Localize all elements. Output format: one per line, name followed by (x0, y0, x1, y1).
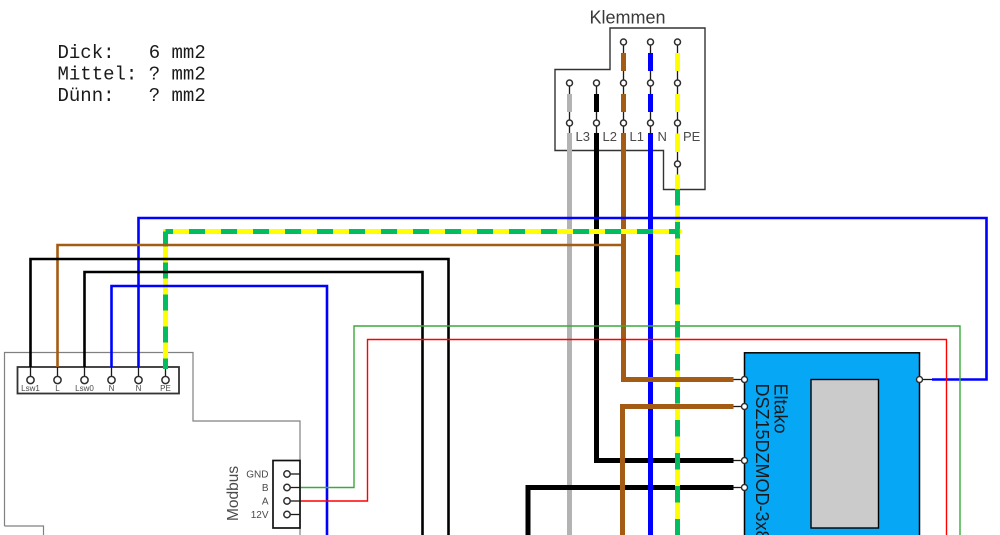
Eltako terminal circles (742, 377, 748, 383)
svg-text:PE: PE (160, 384, 171, 393)
Klemmen L3 terminal segment (567, 94, 572, 112)
Klemmen column L3 link line (569, 83, 571, 135)
wire PE vertical (Klemmen, yellow-green) (675, 175, 680, 535)
Klemmen column L2 link line (596, 83, 598, 135)
wire grey L3 vertical (567, 133, 572, 535)
svg-text:Dünn: ? mm2: Dünn: ? mm2 (58, 85, 206, 107)
svg-text:12V: 12V (251, 510, 269, 521)
svg-text:N: N (109, 384, 115, 393)
left terminal labels (21, 384, 171, 393)
Klemmen column L1 link line (623, 42, 625, 135)
Modbus pin stubs (287, 473, 300, 475)
wire brown L1: Klemmen down, right to Eltako pin 1 (624, 133, 734, 380)
Klemmen labels (576, 129, 701, 144)
Klemmen terminal circles L3 (567, 80, 573, 86)
wire brown L: left box to brown net (58, 245, 624, 367)
Klemmen terminal circles N (648, 39, 654, 45)
wire brown 2: Eltako pin 2 left and down (623, 407, 734, 535)
svg-text:Mittel: ? mm2: Mittel: ? mm2 (58, 64, 206, 86)
wire black L2: Klemmen down, right to Eltako pin 3 (597, 133, 734, 461)
wire blue N2: left box to Eltako right pin (139, 218, 987, 380)
svg-text:B: B (262, 483, 269, 494)
Klemmen box outline (555, 28, 705, 190)
svg-text:Klemmen: Klemmen (589, 8, 665, 28)
Klemmen terminal circles L2 (594, 80, 600, 86)
svg-text:L2: L2 (603, 129, 617, 144)
svg-text:A: A (262, 497, 269, 508)
wire blue N1 (112, 286, 328, 535)
Klemmen L2 terminal segment (594, 94, 599, 112)
svg-text:L: L (55, 384, 60, 393)
wire red Modbus A (300, 340, 947, 535)
Eltako meter box (745, 353, 920, 535)
Klemmen terminal circles PE (675, 39, 681, 45)
Eltako pin connector lines (734, 379, 745, 381)
left terminal circles (27, 376, 34, 383)
wire blue N vertical (Klemmen) (648, 133, 653, 535)
Modbus pin circles (284, 471, 290, 477)
wire black 2: Eltako pin 4 left and down (528, 488, 734, 535)
Eltako display window (811, 380, 879, 529)
Klemmen N terminal segments (648, 53, 653, 71)
Modbus pin labels (246, 470, 269, 522)
Klemmen column N link line (650, 42, 652, 135)
svg-text:Dick: 6 mm2: Dick: 6 mm2 (58, 42, 206, 64)
wire gauge legend text (58, 42, 206, 107)
wire green Modbus B (300, 326, 960, 535)
terminal strip box (left) (18, 367, 180, 394)
Klemmen column PE link line (677, 42, 679, 176)
wire black Lsw0 (85, 272, 423, 535)
wire PE: left box to PE net (yellow-green) (166, 232, 679, 370)
Klemmen L1 terminal segments (621, 53, 626, 71)
Modbus connector box (273, 461, 300, 529)
svg-text:L3: L3 (576, 129, 590, 144)
svg-text:L1: L1 (630, 129, 644, 144)
svg-text:Lsw0: Lsw0 (75, 384, 94, 393)
Klemmen terminal circles L1 (621, 39, 627, 45)
svg-text:GND: GND (246, 470, 268, 481)
svg-text:PE: PE (683, 129, 701, 144)
Klemmen PE terminal segments (675, 53, 680, 71)
svg-text:Modbus: Modbus (225, 466, 242, 521)
svg-text:Lsw1: Lsw1 (21, 384, 40, 393)
svg-text:N: N (658, 129, 667, 144)
device box (left controller) outline (5, 353, 301, 535)
svg-text:N: N (136, 384, 142, 393)
wire black Lsw1 (31, 259, 449, 535)
left terminal pin lines (30, 367, 32, 378)
